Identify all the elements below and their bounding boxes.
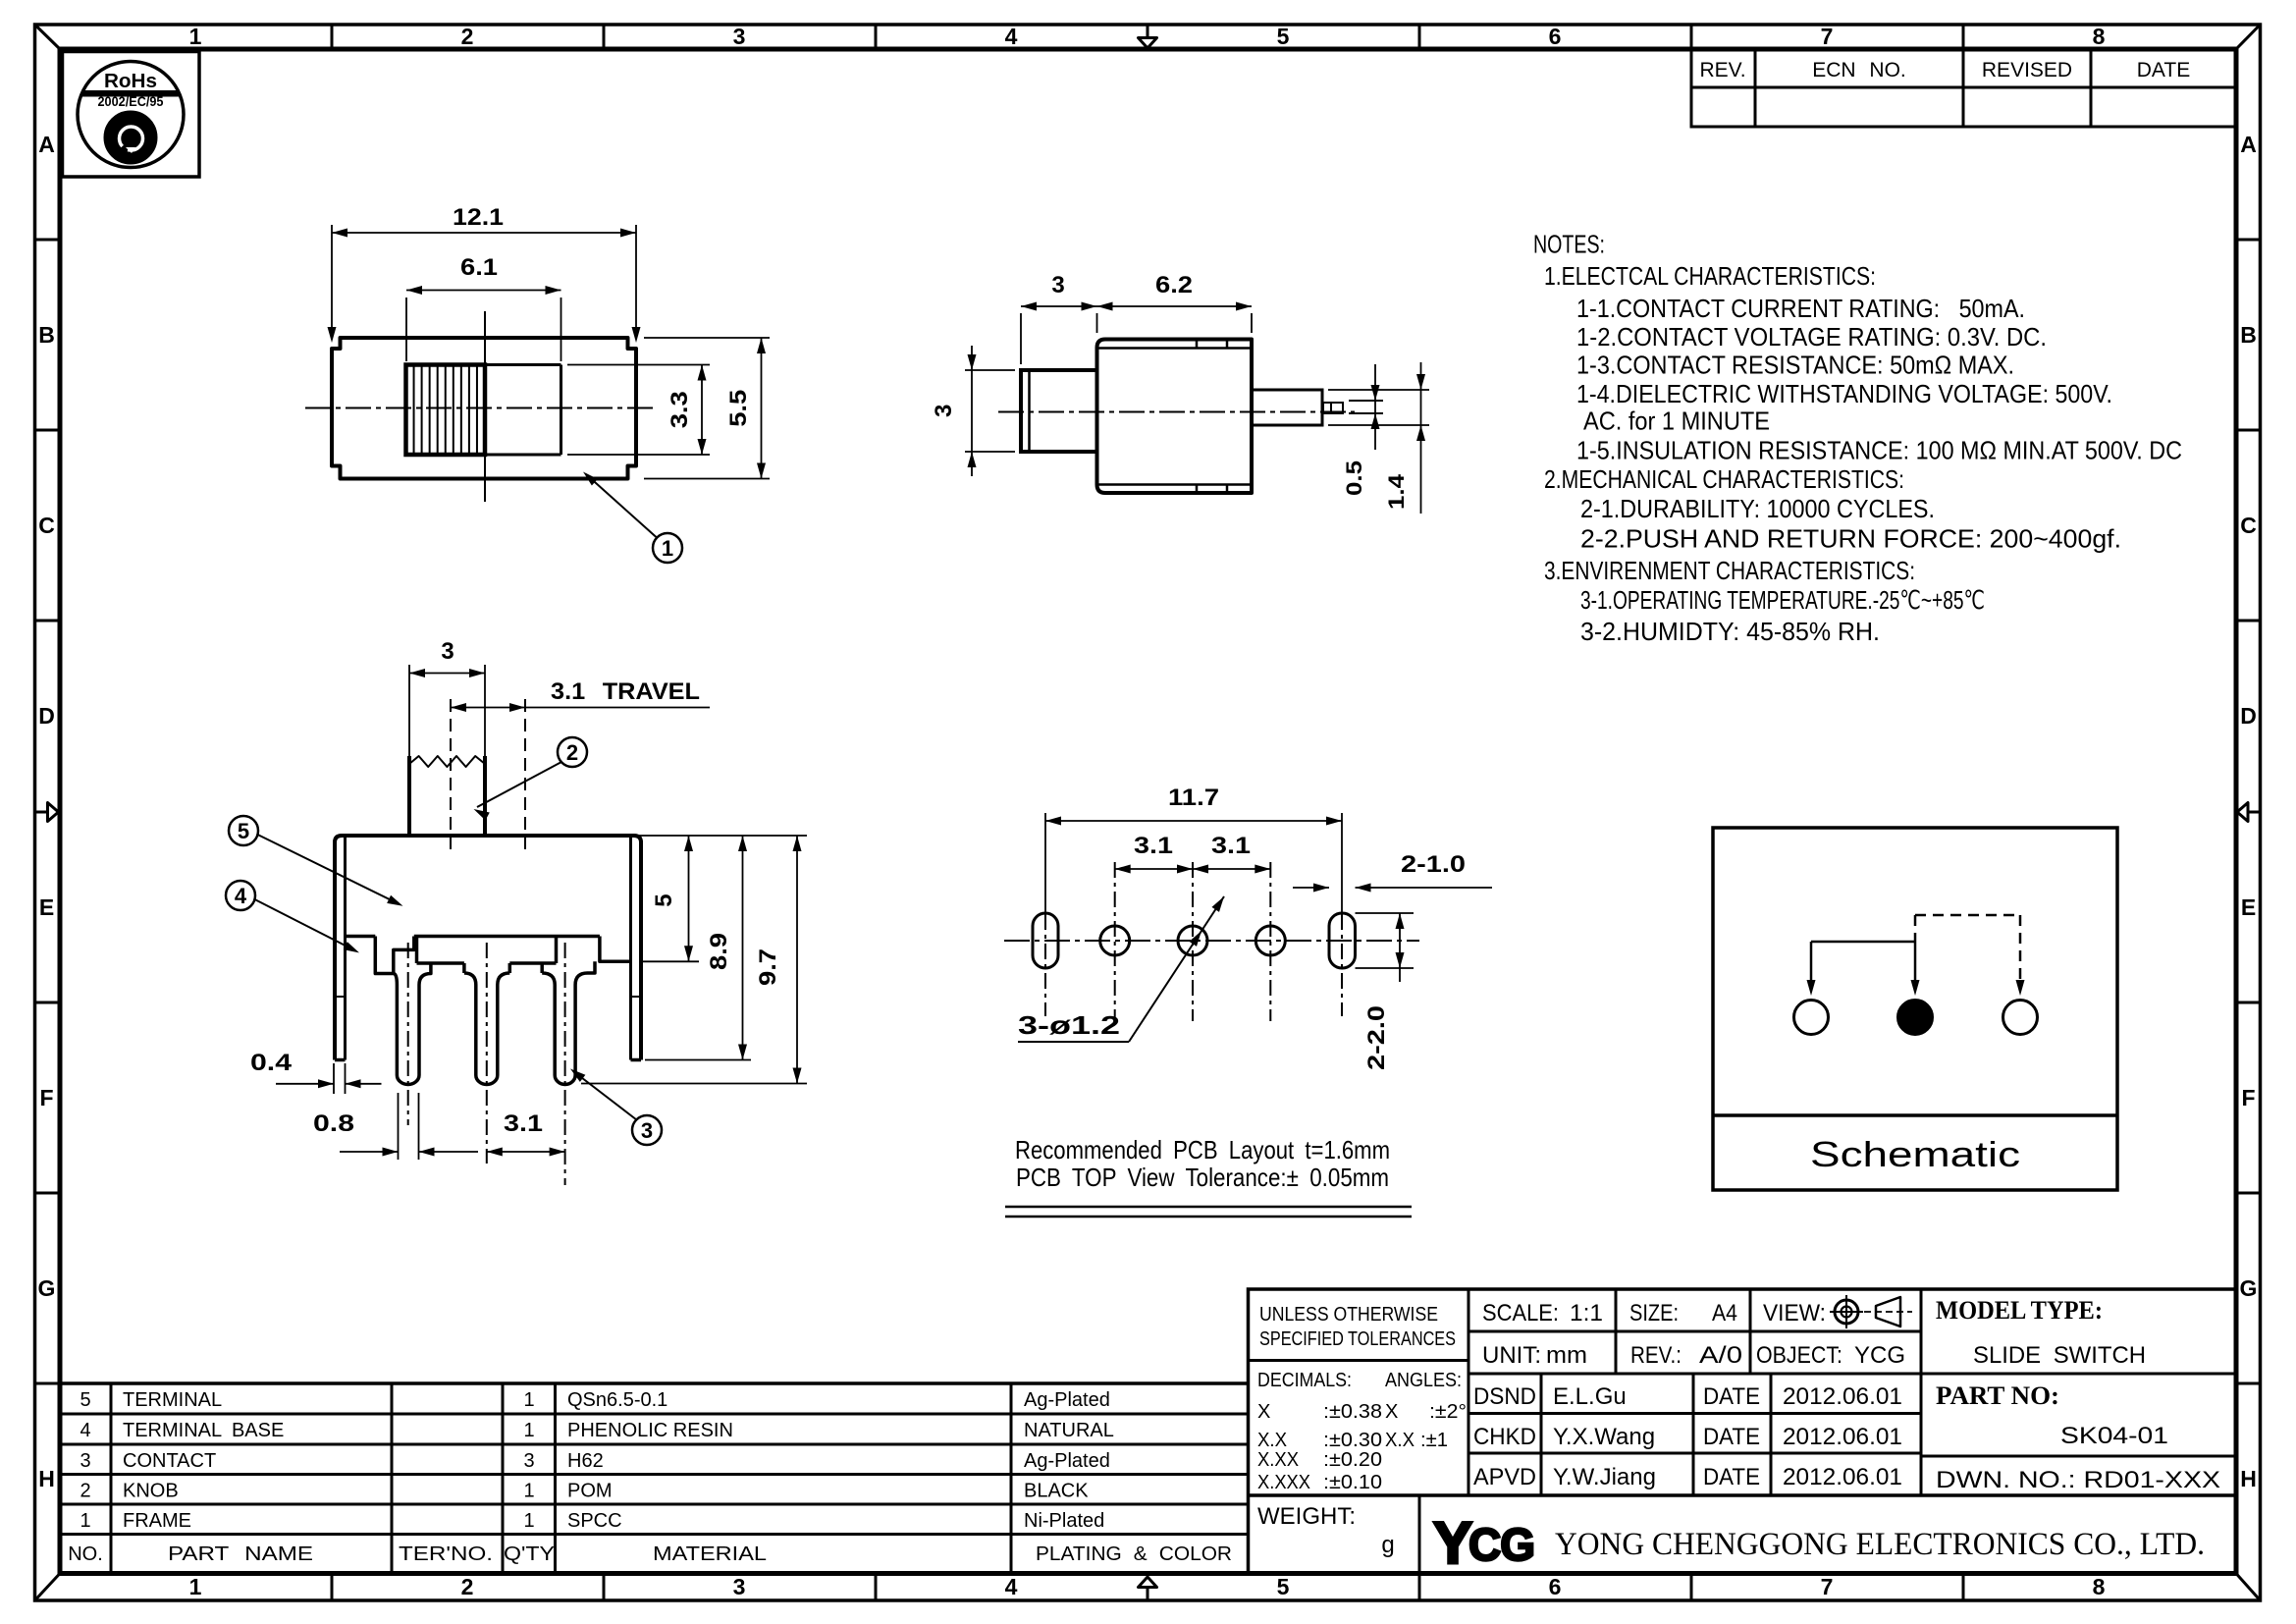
svg-text:1.4: 1.4 — [1384, 473, 1409, 510]
svg-text:F: F — [39, 1085, 53, 1110]
svg-text:5: 5 — [651, 893, 677, 906]
svg-text:TERMINAL: TERMINAL — [123, 1389, 222, 1411]
svg-text:2: 2 — [461, 1574, 474, 1599]
svg-text:1: 1 — [523, 1481, 534, 1502]
svg-text:2-1.0: 2-1.0 — [1401, 851, 1466, 878]
svg-text:5: 5 — [1277, 24, 1290, 49]
svg-text:g: g — [1381, 1532, 1394, 1558]
svg-text:NOTES:: NOTES: — [1533, 230, 1605, 259]
svg-text:3: 3 — [523, 1450, 534, 1472]
svg-text:ECN NO.: ECN NO. — [1812, 59, 1906, 81]
svg-text:SPCC: SPCC — [567, 1510, 622, 1532]
svg-text:3-2.HUMIDTY: 45-85% RH.: 3-2.HUMIDTY: 45-85% RH. — [1580, 617, 1880, 646]
svg-text:6.1: 6.1 — [460, 254, 498, 281]
svg-text:mm: mm — [1546, 1342, 1587, 1369]
svg-text:3: 3 — [733, 24, 746, 49]
svg-text:DSND: DSND — [1473, 1383, 1536, 1410]
svg-text:Ag-Plated: Ag-Plated — [1024, 1389, 1110, 1411]
svg-text:1: 1 — [189, 24, 202, 49]
svg-text::±0.20: :±0.20 — [1323, 1449, 1382, 1471]
svg-text:REVISED: REVISED — [1982, 59, 2072, 81]
svg-text:A4: A4 — [1712, 1300, 1737, 1326]
svg-text:WEIGHT:: WEIGHT: — [1257, 1503, 1356, 1530]
svg-text:Q'TY: Q'TY — [504, 1543, 555, 1565]
svg-text:DWN. NO.: RD01-XXX: DWN. NO.: RD01-XXX — [1936, 1467, 2220, 1493]
svg-text:C: C — [38, 513, 55, 538]
svg-text:2-1.DURABILITY: 10000 CYCLES.: 2-1.DURABILITY: 10000 CYCLES. — [1580, 494, 1935, 523]
svg-text::±0.38: :±0.38 — [1323, 1401, 1382, 1423]
svg-text:B: B — [38, 322, 55, 348]
svg-text:KNOB: KNOB — [123, 1481, 179, 1502]
svg-text:8.9: 8.9 — [706, 933, 732, 970]
svg-text:2.MECHANICAL CHARACTERISTICS:: 2.MECHANICAL CHARACTERISTICS: — [1544, 464, 1904, 494]
svg-text:H: H — [2240, 1466, 2257, 1491]
svg-text:3.1: 3.1 — [504, 1110, 543, 1137]
svg-text:H: H — [38, 1466, 55, 1491]
svg-text:SPECIFIED TOLERANCES: SPECIFIED TOLERANCES — [1259, 1328, 1456, 1350]
svg-text:PLATING & COLOR: PLATING & COLOR — [1036, 1543, 1232, 1565]
svg-text:2002/EC/95: 2002/EC/95 — [98, 94, 164, 109]
svg-text:AC. for 1 MINUTE: AC. for 1 MINUTE — [1583, 406, 1770, 436]
svg-text:3: 3 — [931, 405, 957, 417]
svg-text:D: D — [38, 703, 55, 729]
svg-text:PART NAME: PART NAME — [168, 1543, 313, 1565]
svg-text:DATE: DATE — [1703, 1464, 1760, 1490]
svg-text:X: X — [1257, 1401, 1270, 1423]
svg-text:5: 5 — [1277, 1574, 1290, 1599]
svg-text:PCB TOP View Tolerance:± 0.05m: PCB TOP View Tolerance:± 0.05mm — [1016, 1163, 1389, 1192]
svg-text:11.7: 11.7 — [1168, 785, 1219, 811]
svg-text:E: E — [39, 894, 54, 920]
svg-text:TERMINAL BASE: TERMINAL BASE — [123, 1420, 284, 1441]
svg-text:UNIT:: UNIT: — [1482, 1342, 1541, 1369]
svg-text:2012.06.01: 2012.06.01 — [1783, 1464, 1902, 1490]
svg-text:1-3.CONTACT RESISTANCE: 50mΩ M: 1-3.CONTACT RESISTANCE: 50mΩ MAX. — [1576, 351, 2014, 380]
svg-text:1: 1 — [80, 1510, 90, 1532]
svg-text:2: 2 — [566, 740, 578, 765]
svg-text:3.1: 3.1 — [1211, 833, 1251, 859]
svg-text:REV.: REV. — [1699, 59, 1745, 81]
svg-text:QSn6.5-0.1: QSn6.5-0.1 — [567, 1389, 667, 1411]
svg-text:4: 4 — [1005, 24, 1018, 49]
svg-text:4: 4 — [1005, 1574, 1018, 1599]
svg-text:1:1: 1:1 — [1570, 1300, 1603, 1326]
svg-text:NATURAL: NATURAL — [1024, 1420, 1114, 1441]
svg-text:DATE: DATE — [1703, 1383, 1760, 1410]
svg-text:6: 6 — [1549, 1574, 1562, 1599]
svg-text:1-5.INSULATION RESISTANCE: 100: 1-5.INSULATION RESISTANCE: 100 MΩ MIN.AT… — [1576, 436, 2182, 465]
svg-text:1: 1 — [523, 1510, 534, 1532]
svg-text:X.X: X.X — [1257, 1430, 1287, 1451]
svg-text:2: 2 — [461, 24, 474, 49]
svg-text:DECIMALS:: DECIMALS: — [1257, 1370, 1352, 1391]
svg-text:3: 3 — [1051, 272, 1064, 298]
svg-text:8: 8 — [2093, 1574, 2106, 1599]
svg-text:PART NO:: PART NO: — [1936, 1381, 2059, 1410]
svg-text:X: X — [1385, 1401, 1398, 1423]
svg-text:A/0: A/0 — [1699, 1342, 1742, 1369]
svg-text:3.ENVIRENMENT CHARACTERISTICS:: 3.ENVIRENMENT CHARACTERISTICS: — [1544, 556, 1915, 585]
svg-text:0.5: 0.5 — [1342, 460, 1366, 496]
svg-text:CG: CG — [1468, 1519, 1534, 1570]
svg-text:1: 1 — [523, 1389, 534, 1411]
svg-text:YONG CHENGGONG ELECTRONICS CO.: YONG CHENGGONG ELECTRONICS CO., LTD. — [1555, 1527, 2205, 1562]
svg-text:E: E — [2241, 894, 2256, 920]
svg-text:4: 4 — [80, 1420, 90, 1441]
svg-text:Y.W.Jiang: Y.W.Jiang — [1553, 1464, 1656, 1490]
svg-text:MATERIAL: MATERIAL — [653, 1543, 767, 1565]
svg-text:5.5: 5.5 — [725, 390, 752, 427]
svg-text:CONTACT: CONTACT — [123, 1450, 216, 1472]
svg-text:DATE: DATE — [2137, 59, 2190, 81]
svg-text:9.7: 9.7 — [755, 948, 781, 986]
svg-text:3-1.OPERATING TEMPERATURE.-25℃: 3-1.OPERATING TEMPERATURE.-25℃~+85℃ — [1580, 585, 1985, 615]
svg-text::±2°: :±2° — [1429, 1401, 1467, 1423]
svg-text:E.L.Gu: E.L.Gu — [1553, 1383, 1627, 1410]
svg-text:3: 3 — [80, 1450, 90, 1472]
svg-text:TER'NO.: TER'NO. — [399, 1543, 493, 1565]
svg-text:3: 3 — [733, 1574, 746, 1599]
svg-text:APVD: APVD — [1473, 1464, 1536, 1490]
svg-text:1-1.CONTACT CURRENT RATING:: 1-1.CONTACT CURRENT RATING: 50mA. — [1576, 294, 2025, 323]
svg-text:Recommended PCB Layout t=1.6mm: Recommended PCB Layout t=1.6mm — [1015, 1135, 1390, 1164]
svg-text:C: C — [2240, 513, 2257, 538]
svg-text:FRAME: FRAME — [123, 1510, 191, 1532]
svg-text:X.XXX: X.XXX — [1257, 1472, 1310, 1493]
svg-text:SCALE:: SCALE: — [1482, 1300, 1559, 1326]
svg-text:H62: H62 — [567, 1450, 604, 1472]
svg-text:ANGLES:: ANGLES: — [1385, 1370, 1462, 1391]
svg-text:2: 2 — [80, 1481, 90, 1502]
svg-text:5: 5 — [80, 1389, 90, 1411]
svg-text:1: 1 — [662, 536, 673, 561]
svg-text::±0.10: :±0.10 — [1323, 1472, 1382, 1493]
svg-text:7: 7 — [1821, 24, 1834, 49]
svg-text:6: 6 — [1549, 24, 1562, 49]
svg-text:0.4: 0.4 — [250, 1050, 293, 1076]
svg-text:UNLESS OTHERWISE: UNLESS OTHERWISE — [1259, 1304, 1438, 1326]
svg-text:1-4.DIELECTRIC WITHSTANDING VO: 1-4.DIELECTRIC WITHSTANDING VOLTAGE: 500… — [1576, 379, 2112, 408]
svg-text:2-2.PUSH AND RETURN FORCE: 200: 2-2.PUSH AND RETURN FORCE: 200~400gf. — [1580, 524, 2121, 554]
svg-text:SLIDE SWITCH: SLIDE SWITCH — [1973, 1342, 2146, 1369]
svg-text:3.1 TRAVEL: 3.1 TRAVEL — [551, 678, 700, 705]
svg-text:12.1: 12.1 — [453, 204, 504, 231]
svg-text:BLACK: BLACK — [1024, 1481, 1089, 1502]
svg-text:X.XX: X.XX — [1257, 1449, 1299, 1471]
svg-text:PHENOLIC RESIN: PHENOLIC RESIN — [567, 1420, 733, 1441]
svg-text:Schematic: Schematic — [1810, 1134, 2020, 1174]
svg-text::±0.30: :±0.30 — [1323, 1430, 1382, 1451]
svg-text:Ag-Plated: Ag-Plated — [1024, 1450, 1110, 1472]
svg-text:3-ø1.2: 3-ø1.2 — [1018, 1010, 1120, 1040]
svg-text:SIZE:: SIZE: — [1629, 1300, 1679, 1326]
svg-text:4: 4 — [235, 884, 247, 908]
svg-text:0.8: 0.8 — [313, 1110, 354, 1137]
svg-text:Ni-Plated: Ni-Plated — [1024, 1510, 1104, 1532]
svg-text:NO.: NO. — [68, 1543, 103, 1565]
svg-text:3: 3 — [441, 638, 454, 665]
svg-text:B: B — [2240, 322, 2257, 348]
svg-text:3.1: 3.1 — [1134, 833, 1173, 859]
svg-text:1: 1 — [523, 1420, 534, 1441]
svg-text:1.ELECTCAL CHARACTERISTICS:: 1.ELECTCAL CHARACTERISTICS: — [1544, 261, 1876, 291]
svg-text:VIEW:: VIEW: — [1763, 1300, 1826, 1326]
svg-text:2012.06.01: 2012.06.01 — [1783, 1424, 1902, 1450]
svg-text:5: 5 — [238, 819, 249, 843]
svg-text:RoHs: RoHs — [104, 71, 157, 92]
svg-text:POM: POM — [567, 1481, 613, 1502]
svg-text:YCG: YCG — [1854, 1342, 1905, 1369]
svg-text::±1: :±1 — [1420, 1430, 1448, 1451]
svg-text:CHKD: CHKD — [1473, 1424, 1536, 1450]
svg-text:3.3: 3.3 — [667, 391, 693, 428]
svg-text:MODEL TYPE:: MODEL TYPE: — [1936, 1296, 2103, 1325]
svg-text:X.X: X.X — [1385, 1430, 1415, 1451]
svg-text:3: 3 — [641, 1118, 653, 1143]
svg-text:8: 8 — [2093, 24, 2106, 49]
svg-text:1-2.CONTACT VOLTAGE RATING: 0.: 1-2.CONTACT VOLTAGE RATING: 0.3V. DC. — [1576, 322, 2047, 352]
svg-text:2-2.0: 2-2.0 — [1363, 1005, 1390, 1070]
svg-text:2012.06.01: 2012.06.01 — [1783, 1383, 1902, 1410]
svg-text:OBJECT:: OBJECT: — [1756, 1342, 1842, 1369]
svg-text:A: A — [38, 132, 55, 157]
svg-text:REV.:: REV.: — [1630, 1342, 1682, 1369]
svg-text:SK04-01: SK04-01 — [2060, 1423, 2168, 1449]
svg-text:Y.X.Wang: Y.X.Wang — [1553, 1424, 1655, 1450]
svg-text:G: G — [2240, 1275, 2258, 1301]
svg-text:DATE: DATE — [1703, 1424, 1760, 1450]
svg-text:Y: Y — [1433, 1510, 1472, 1576]
svg-text:G: G — [38, 1275, 56, 1301]
svg-text:A: A — [2240, 132, 2257, 157]
svg-text:F: F — [2241, 1085, 2255, 1110]
svg-text:6.2: 6.2 — [1155, 272, 1193, 298]
svg-text:7: 7 — [1821, 1574, 1834, 1599]
svg-text:1: 1 — [189, 1574, 202, 1599]
svg-text:D: D — [2240, 703, 2257, 729]
